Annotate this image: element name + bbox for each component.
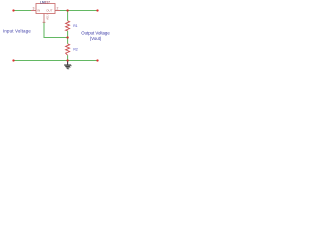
svg-text:LM317: LM317: [40, 0, 50, 4]
U1 pin 1 lead (ADJ): [43, 14, 46, 23]
junction node GND: [66, 59, 68, 61]
svg-text:Input Voltage: Input Voltage: [3, 28, 31, 33]
pin name IN: [37, 8, 40, 12]
terminal node output-: [96, 59, 98, 61]
label Output Voltage: [81, 31, 110, 36]
wire input top: [14, 10, 32, 12]
resistor R2 zigzag: [66, 44, 70, 55]
junction node OUT/R1: [66, 9, 68, 11]
svg-text:R2: R2: [73, 48, 77, 52]
pin name ADJ (rotated): [45, 14, 49, 20]
R2 ref label: [73, 48, 77, 52]
terminal node output+: [96, 9, 98, 11]
op-amp U1 LM317 regulator body: [36, 4, 55, 14]
terminal node input+: [12, 9, 14, 11]
pin name OUT: [46, 8, 52, 12]
ground symbol: [64, 61, 72, 69]
resistor R1 zigzag: [66, 21, 70, 31]
U1 pin 3 lead (IN): [31, 10, 36, 12]
label Input Voltage: [3, 28, 31, 33]
wire R1 bottom lead: [67, 31, 69, 38]
U1 pin 2 lead (OUT): [55, 10, 60, 12]
wire R1 top lead: [67, 11, 69, 21]
svg-text:2: 2: [57, 6, 59, 10]
svg-text:OUT: OUT: [46, 8, 52, 12]
wire R2 top lead: [67, 38, 69, 44]
svg-text:IN: IN: [37, 8, 40, 12]
pin number 3: [33, 6, 35, 10]
pin number 2: [57, 6, 59, 10]
wire R2 bottom lead: [67, 55, 69, 60]
svg-text:(Vout): (Vout): [90, 36, 102, 41]
svg-text:ADJ: ADJ: [45, 14, 49, 20]
wire bottom rail: [14, 60, 98, 62]
R1 ref label: [73, 24, 77, 28]
junction node ADJ/R1/R2: [66, 36, 68, 38]
U1 value label LM317: [40, 0, 50, 4]
label (Vout): [90, 36, 102, 41]
svg-text:3: 3: [33, 6, 35, 10]
wire output top: [60, 10, 98, 12]
terminal node input-: [12, 59, 14, 61]
svg-text:R1: R1: [73, 24, 77, 28]
svg-text:Output Voltage: Output Voltage: [81, 31, 110, 36]
wire ADJ to divider: [44, 23, 68, 38]
